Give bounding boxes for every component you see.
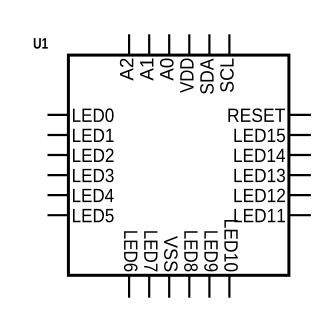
pin LED15 wire (right side) bbox=[289, 134, 311, 136]
pin LED5 name label bbox=[73, 209, 114, 222]
pin LED12 wire (right side) bbox=[289, 194, 311, 196]
pin LED12 name label bbox=[234, 189, 285, 202]
pin A1 name label bbox=[140, 58, 153, 80]
pin RESET wire (right side) bbox=[289, 114, 311, 116]
pin LED6 name label bbox=[124, 231, 138, 271]
pin A0 name label bbox=[160, 59, 174, 81]
IC reference designator U1 bbox=[34, 38, 48, 49]
pin LED2 wire (left side) bbox=[48, 154, 69, 156]
pin LED3 name label bbox=[73, 169, 114, 183]
pin VSS wire (bottom side) bbox=[168, 275, 170, 297]
pin A2 name label bbox=[120, 59, 133, 81]
pin LED4 name label bbox=[73, 189, 114, 202]
pin LED0 wire (left side) bbox=[48, 114, 69, 116]
pin A2 wire (top side) bbox=[128, 34, 130, 55]
pin LED1 name label bbox=[73, 129, 114, 142]
pin SDA wire (top side) bbox=[208, 34, 210, 55]
pin RESET name label bbox=[228, 108, 285, 122]
pin SDA name label bbox=[200, 58, 214, 93]
pin LED13 wire (right side) bbox=[289, 174, 311, 176]
pin LED9 wire (bottom side) bbox=[208, 275, 210, 297]
pin VDD wire (top side) bbox=[188, 34, 190, 55]
pin LED15 name label bbox=[234, 129, 285, 142]
pin LED7 name label bbox=[144, 231, 157, 271]
pin VSS name label bbox=[164, 236, 178, 271]
pin SCL name label bbox=[220, 58, 234, 92]
pin LED2 name label bbox=[73, 149, 114, 162]
pin VDD name label bbox=[180, 59, 193, 93]
pin LED13 name label bbox=[234, 169, 285, 183]
pin LED7 wire (bottom side) bbox=[148, 275, 150, 297]
pin A0 wire (top side) bbox=[168, 34, 170, 55]
pin SCL wire (top side) bbox=[228, 34, 230, 55]
pin LED10 wire (bottom side) bbox=[228, 275, 230, 297]
pin LED9 name label bbox=[204, 231, 218, 271]
pin LED14 wire (right side) bbox=[289, 154, 311, 156]
pin LED8 wire (bottom side) bbox=[188, 275, 190, 297]
pin A1 wire (top side) bbox=[148, 34, 150, 55]
pin LED6 wire (bottom side) bbox=[128, 275, 130, 297]
pin LED3 wire (left side) bbox=[48, 174, 69, 176]
pin LED10 name label bbox=[224, 220, 238, 271]
pin LED8 name label bbox=[184, 231, 198, 271]
pin LED5 wire (left side) bbox=[48, 214, 69, 216]
IC U1 body outline bbox=[68, 55, 289, 275]
pin LED11 wire (right side) bbox=[289, 214, 311, 216]
pin LED14 name label bbox=[234, 149, 285, 162]
pin LED0 name label bbox=[73, 108, 114, 122]
pin LED1 wire (left side) bbox=[48, 134, 69, 136]
pin LED11 name label bbox=[234, 209, 285, 222]
pin LED4 wire (left side) bbox=[48, 194, 69, 196]
